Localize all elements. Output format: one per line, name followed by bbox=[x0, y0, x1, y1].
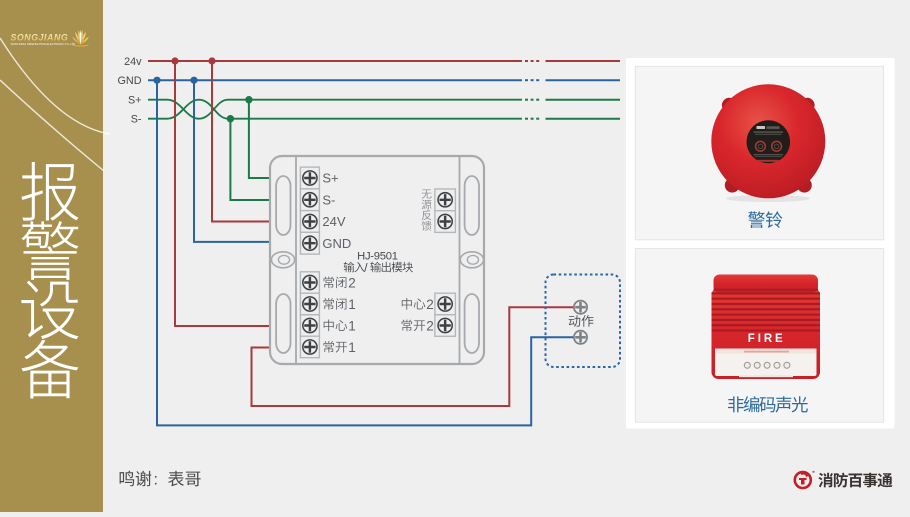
junction dot GND at x157 bbox=[153, 77, 160, 84]
wire S- bus with twisted pair bbox=[148, 100, 620, 119]
wire red drop to terminal 中心1 bbox=[175, 61, 270, 326]
svg-text:24V: 24V bbox=[322, 214, 345, 229]
bus label S+ bbox=[128, 95, 142, 107]
svg-text:1: 1 bbox=[348, 297, 356, 312]
wire S+ bus with twisted pair bbox=[148, 100, 620, 119]
label 无源反馈 vertical bbox=[422, 189, 432, 230]
svg-text:24v: 24v bbox=[124, 56, 142, 68]
junction dot S+ at x249 bbox=[245, 96, 252, 103]
terminal labels 中心2 常开2 bbox=[402, 297, 434, 334]
svg-text:FIRE: FIRE bbox=[748, 333, 786, 345]
svg-text:2: 2 bbox=[348, 275, 356, 290]
svg-text:GND: GND bbox=[118, 75, 142, 87]
svg-text:S+: S+ bbox=[322, 171, 338, 186]
svg-text:1: 1 bbox=[348, 318, 356, 333]
module mounting slots bbox=[276, 176, 479, 353]
svg-text:SONGJIANG: SONGJIANG bbox=[11, 32, 69, 42]
wire green drop to terminal S+ bbox=[249, 100, 270, 178]
sidebar decorative arc upper bbox=[0, 38, 110, 134]
footer credit 鸣谢: 表哥 bbox=[120, 471, 201, 489]
wire blue drop to terminal GND bbox=[194, 80, 270, 242]
svg-text:S-: S- bbox=[131, 114, 142, 126]
action box screw terminal lower bbox=[574, 331, 587, 344]
company logo text SONGJIANG bbox=[11, 32, 76, 46]
action box screw terminal upper bbox=[574, 301, 587, 314]
footer logo fire-hydrant icon bbox=[795, 471, 815, 488]
terminal labels S+ S- 24V GND bbox=[322, 171, 351, 251]
wire red drop to terminal 24V bbox=[212, 61, 270, 222]
alarm bell photo bbox=[711, 84, 825, 202]
footer logo text 消防百事通 bbox=[818, 473, 892, 488]
company logo lotus emblem bbox=[71, 30, 89, 47]
caption 警铃 bbox=[748, 211, 782, 228]
wire GND bus bbox=[148, 79, 620, 81]
terminal block left top (S+,S-,24V,GND) bbox=[300, 167, 319, 254]
sidebar decorative arc lower bbox=[0, 80, 104, 171]
caption 非编码声光 bbox=[728, 396, 808, 412]
module side keyhole tabs bbox=[271, 252, 483, 268]
terminal labels 常闭2 常闭1 中心1 常开1 bbox=[324, 275, 356, 355]
wire 24v power bus bbox=[148, 60, 620, 62]
sidebar vertical title 报警设备 bbox=[21, 162, 78, 399]
svg-text::: : bbox=[154, 472, 158, 489]
junction dot 24v at x212 bbox=[208, 57, 215, 64]
photo frame box for bell bbox=[635, 66, 883, 240]
photo frame box for strobe bbox=[635, 249, 883, 423]
module title HJ-9501 bbox=[357, 250, 398, 262]
svg-text:SONGJIANG FIREFIGHTING ELECTRO: SONGJIANG FIREFIGHTING ELECTRONIC CO.,LT… bbox=[11, 42, 76, 46]
sound-strobe alarm photo bbox=[712, 275, 821, 380]
svg-text:S-: S- bbox=[322, 193, 335, 208]
wire blue drop to action box bbox=[157, 80, 574, 425]
wire red from 常开1 to action box bbox=[252, 307, 575, 406]
bus label GND bbox=[118, 75, 142, 87]
module HJ-9501 body bbox=[270, 156, 484, 364]
junction dot 24v at x175 bbox=[171, 57, 178, 64]
wire green drop to terminal S- bbox=[230, 119, 270, 200]
action box dashed outline bbox=[546, 275, 621, 368]
svg-text:S+: S+ bbox=[128, 95, 142, 107]
terminal block right top (无源反馈) bbox=[435, 189, 456, 232]
junction dot S- at x230 bbox=[227, 115, 234, 122]
module title 输入/输出模块 bbox=[344, 260, 413, 274]
label 动作 bbox=[569, 315, 594, 327]
right panel white card bbox=[626, 58, 895, 429]
junction dot GND at x194 bbox=[190, 77, 197, 84]
svg-text:GND: GND bbox=[322, 236, 351, 251]
bus label S- bbox=[131, 114, 142, 126]
bus label 24v bbox=[124, 56, 142, 68]
terminal block right bottom (中心2,常开2) bbox=[435, 293, 456, 336]
svg-text:2: 2 bbox=[426, 297, 434, 312]
sidebar background panel bbox=[0, 0, 103, 512]
terminal block left bottom (常闭/中心/常开) bbox=[300, 272, 319, 358]
svg-text:2: 2 bbox=[426, 318, 434, 333]
svg-text:1: 1 bbox=[348, 340, 356, 355]
